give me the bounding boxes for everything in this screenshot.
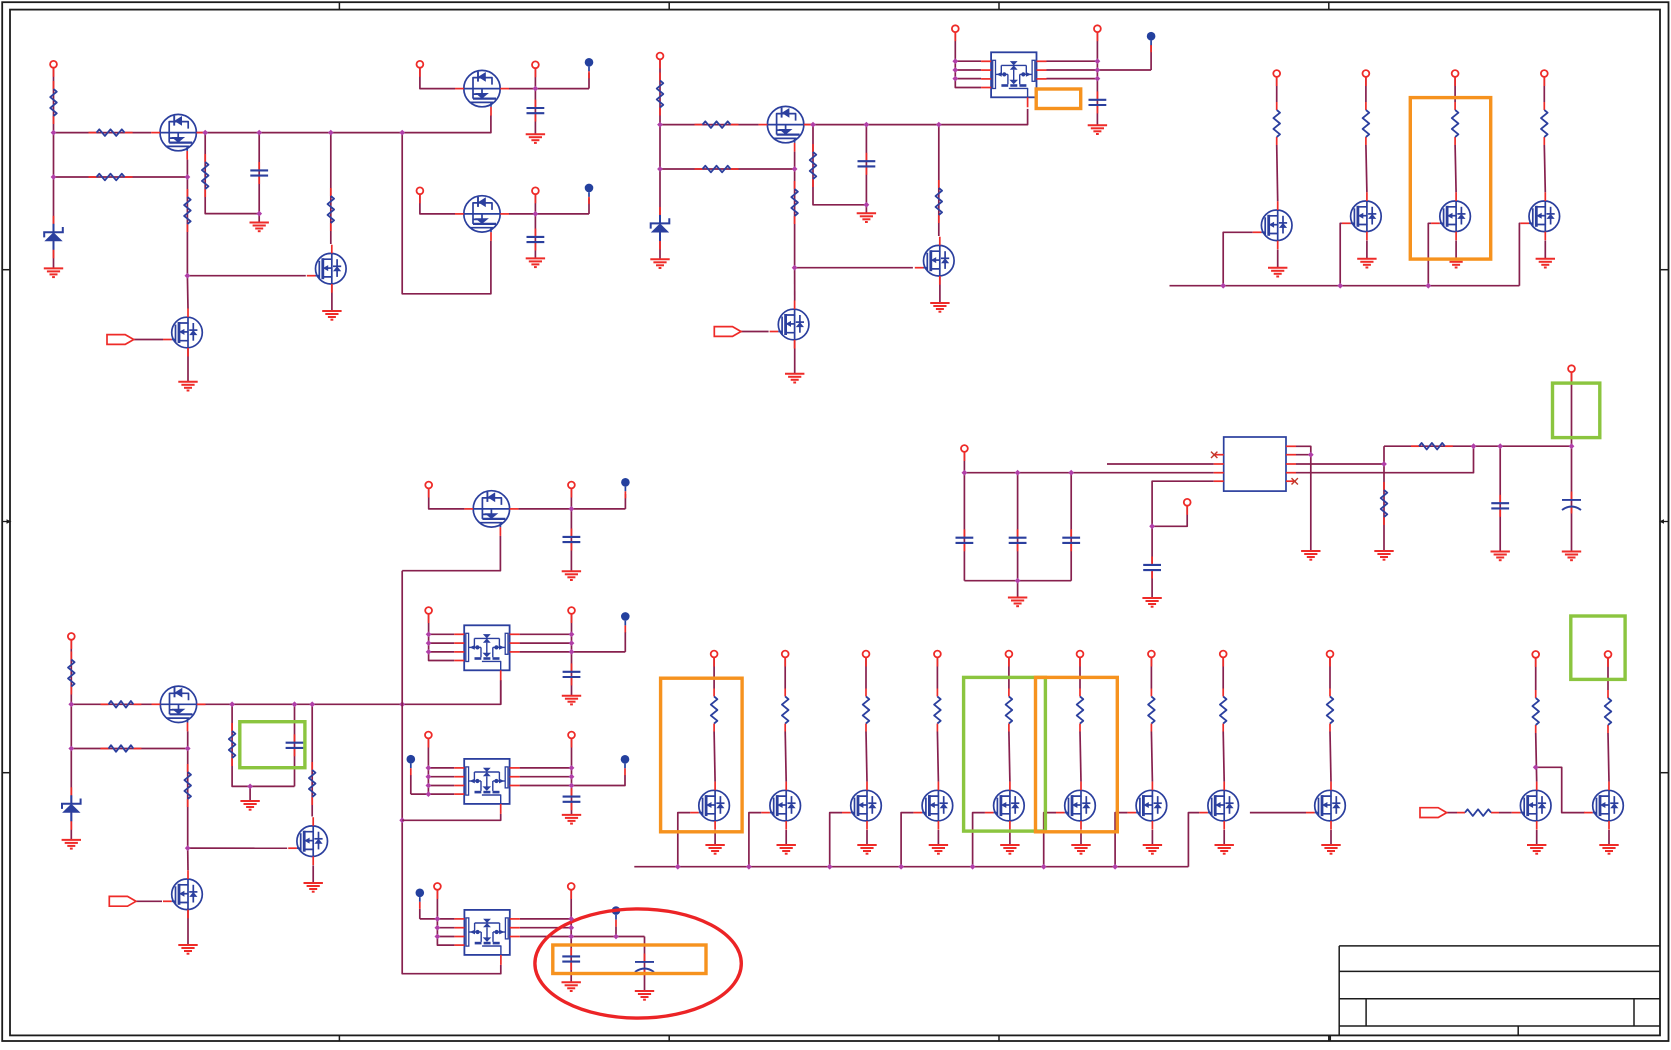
wire BR col7 R to Q — [1151, 732, 1152, 782]
wire tag3 to Q16 gate — [136, 900, 162, 902]
junction J — [399, 701, 405, 707]
ground G16 — [62, 840, 81, 849]
wire BR col5 gate — [973, 813, 985, 867]
wire U3 L3 — [428, 785, 454, 787]
junction J — [864, 122, 870, 128]
transistor Q2 — [455, 70, 509, 115]
resistor R8 — [810, 144, 817, 187]
wire gnd stub B3 — [249, 786, 251, 801]
wire Q9 source to gnd — [794, 340, 796, 374]
junction J — [569, 640, 575, 646]
wire node A2 row to Q6 gate — [660, 124, 759, 126]
ground GD2 — [635, 991, 654, 1000]
resistor R32 — [1457, 809, 1499, 816]
ground G17 — [240, 801, 259, 810]
wire BR col2 pin to R — [784, 658, 786, 689]
junction J — [569, 506, 575, 512]
pin PB5 — [1006, 651, 1013, 667]
wire CD2 column — [644, 937, 646, 992]
wire BR col8 R to Q — [1223, 732, 1224, 782]
wire BR col6 src gnd — [1080, 830, 1082, 845]
transistor QB6 — [1056, 782, 1095, 830]
resistor R34 — [1605, 690, 1612, 733]
junction J — [810, 122, 816, 128]
resistor R13 — [1452, 102, 1459, 145]
wire node A1 to zener K — [53, 133, 55, 269]
port connector T2 — [714, 327, 741, 337]
junction J — [1471, 443, 1477, 449]
resistor R15b — [101, 701, 142, 708]
wire QY src gnd — [1608, 830, 1610, 845]
wire out row main — [1384, 445, 1572, 447]
junction J — [657, 166, 663, 172]
wire R3 branch down — [205, 133, 259, 214]
junction J — [426, 783, 432, 789]
ground G4 — [178, 382, 197, 391]
node NB — [621, 612, 630, 632]
wire BR col3 src gnd — [866, 830, 868, 845]
port connector T1 — [107, 335, 134, 345]
junction J — [435, 916, 441, 922]
junction J — [185, 845, 191, 851]
wire U4 L3 — [437, 936, 454, 938]
transistor QA — [464, 491, 518, 536]
wire U1 R1 — [1047, 60, 1098, 62]
transistor Q4 — [455, 196, 509, 241]
transistor Q12 — [1431, 192, 1470, 240]
wire TR col3 src gnd — [1455, 241, 1457, 259]
wire U3 R3 — [520, 775, 625, 786]
ground G30 — [1008, 598, 1027, 607]
pin P5 — [532, 187, 539, 203]
junction J — [309, 701, 315, 707]
ground G2 — [250, 223, 269, 232]
transistor Q11 — [1342, 192, 1381, 240]
capacitor C5 — [1089, 91, 1107, 113]
resistor R15 — [68, 652, 75, 695]
resistor R11 — [1273, 102, 1280, 145]
wire row2 to Q1 source column — [54, 176, 188, 178]
wire TR col3 gate — [1428, 223, 1431, 285]
wire TR col3 R to Q — [1455, 145, 1456, 192]
wire Q15 drain column — [311, 704, 313, 816]
wire U1 L1 — [955, 60, 981, 62]
transistor Q15 — [288, 817, 327, 865]
wire BR col4 src gnd — [937, 830, 939, 845]
highlight box F1 — [1036, 89, 1081, 109]
capacitor C2 — [527, 100, 545, 122]
pin P8 — [1094, 25, 1101, 41]
highlight box F6 — [964, 677, 1046, 831]
junction J — [970, 864, 976, 870]
junction J — [435, 925, 441, 931]
wire BR col9 gate stub — [1250, 812, 1306, 814]
ground GC — [562, 815, 581, 824]
highlight box F9 — [1571, 616, 1625, 679]
wire BR col4 pin to R — [936, 658, 938, 689]
junction J — [1112, 864, 1118, 870]
junction J — [68, 746, 74, 752]
ground GB2 — [777, 845, 796, 854]
transistor QB4 — [913, 782, 952, 830]
wire U1 L3 — [955, 78, 981, 80]
wire TR col2 gate — [1340, 223, 1342, 285]
pin PC2 — [568, 732, 575, 748]
wire node A2 to zener — [659, 125, 661, 260]
junction J — [185, 273, 191, 279]
wire BR col8 pin to R — [1222, 658, 1224, 689]
capacitor CC — [563, 788, 581, 810]
wire Q14 source down — [187, 731, 189, 848]
wire rail drop to Q4 source — [402, 133, 491, 294]
ground GB9 — [1321, 845, 1340, 854]
capacitor C6 — [286, 734, 304, 756]
wire BR col4 R to Q — [937, 732, 938, 782]
wire Q1 source column to Q5 drain — [186, 276, 189, 309]
transistor Q10 — [1253, 201, 1292, 249]
ground G3 — [322, 311, 341, 320]
resistor R17 — [184, 764, 191, 807]
resistor R33 — [1532, 690, 1539, 733]
wire VR cap bottom rail — [964, 580, 1071, 582]
wire BR gate rail — [634, 866, 1188, 868]
node N2 — [585, 184, 594, 204]
ground G18 — [304, 883, 323, 892]
wire BR col2 gate — [749, 813, 761, 867]
junction J — [185, 174, 191, 180]
ground GD1 — [562, 982, 581, 991]
capacitor C11 — [1009, 529, 1027, 551]
ground G11 — [1088, 125, 1107, 134]
transistor Q14 — [152, 686, 206, 731]
wire U1 R2 — [1047, 69, 1152, 71]
wire U4 L1 — [420, 918, 455, 920]
mosfet array U1 — [981, 52, 1046, 107]
wire C6 branch — [294, 704, 296, 786]
transistor QB2 — [761, 782, 800, 830]
wire VIN2-pin to node A2 — [659, 60, 661, 125]
capacitor C1 — [250, 162, 268, 184]
pin P34 — [1605, 651, 1612, 667]
junction J — [256, 211, 262, 217]
ground GB7 — [1143, 845, 1162, 854]
wire dot stub Q4 — [588, 198, 590, 214]
junction J — [1569, 443, 1575, 449]
wire Cout col — [1499, 446, 1501, 551]
wire U2 R2 — [520, 642, 572, 644]
ground GB8 — [1215, 845, 1234, 854]
mosfet array U2 — [454, 625, 519, 680]
junction J — [569, 631, 575, 637]
wire C4 branch — [865, 125, 867, 205]
wire U2 L3 — [429, 651, 455, 653]
resistor RB7 — [1148, 689, 1155, 732]
wire U5 R2 gnd — [1296, 455, 1311, 551]
capacitor CA — [563, 529, 581, 551]
resistor R5 — [328, 188, 335, 231]
wire BR col8 src gnd — [1223, 830, 1225, 845]
wire BR col9 R to Q — [1330, 732, 1331, 782]
wire QY pin col — [1607, 658, 1609, 690]
pin PA2 — [568, 482, 575, 498]
junction J — [864, 202, 870, 208]
wire TR col1 gate — [1223, 232, 1253, 285]
junction J — [399, 817, 405, 823]
ground G19 — [178, 945, 197, 954]
resistor R2 — [89, 129, 133, 136]
ground G35 — [1562, 552, 1581, 561]
pin P33 — [1532, 651, 1539, 667]
ground GB — [562, 696, 581, 705]
wire dot stub U1 — [1150, 45, 1152, 70]
junction J — [1015, 578, 1021, 584]
junction J — [1220, 283, 1226, 289]
wire BR col3 gate — [830, 813, 842, 867]
pin P7 — [952, 25, 959, 41]
wire TR col4 pin to R — [1543, 77, 1545, 102]
wire PD1 bus — [437, 890, 454, 945]
wire gnd stub B2 — [865, 205, 867, 214]
resistor R6 — [657, 73, 664, 116]
wire BR col7 gate — [1115, 813, 1127, 867]
wire Q8 drain column — [938, 125, 940, 236]
wire U2 source to rail — [500, 680, 502, 704]
capacitor C4 — [858, 153, 876, 175]
resistor R30 — [1381, 482, 1388, 525]
wire node A3 row to Q14 gate — [71, 703, 151, 705]
pin PB1 — [711, 651, 718, 667]
junction J — [533, 211, 539, 217]
pin PB9 — [1327, 651, 1334, 667]
wire PA1 to QA gate — [429, 489, 465, 509]
junction J — [952, 58, 958, 64]
wire BR col5 R to Q — [1009, 732, 1010, 782]
capacitor CD2 (polarized) — [635, 954, 654, 976]
resistor R9 — [791, 181, 798, 224]
junction J — [675, 864, 681, 870]
wire VR cap3 col — [1070, 473, 1072, 581]
zener diode D1 — [44, 216, 63, 258]
pin P9 — [1273, 70, 1280, 86]
pin P3 — [532, 61, 539, 77]
junction J — [229, 701, 235, 707]
ground G13 — [1357, 259, 1376, 268]
wire Q16 source gnd — [187, 908, 189, 945]
wire U5 adj pin — [1152, 481, 1214, 563]
capacitor C3 — [527, 229, 545, 251]
junction J — [1015, 470, 1021, 476]
wire PIN5 column w/ cap — [534, 194, 536, 258]
ground GB3 — [857, 845, 876, 854]
node N1 — [585, 58, 594, 78]
pin PB6 — [1077, 651, 1084, 667]
pin P11 — [1452, 70, 1459, 86]
junction J — [426, 765, 432, 771]
wire BR col7 src gnd — [1151, 830, 1153, 845]
transistor Q16 — [163, 870, 202, 918]
ground G32 — [1301, 551, 1320, 560]
pin PB3 — [863, 651, 870, 667]
ground GB4 — [929, 845, 948, 854]
ground G37 — [1599, 845, 1618, 854]
junction J — [435, 916, 441, 922]
wire QA drain out — [518, 508, 625, 510]
resistor R7 — [695, 121, 739, 128]
pin P30 — [961, 445, 968, 461]
capacitor CD1 — [562, 948, 580, 970]
wire dot stub U4L — [419, 909, 421, 919]
resistor RB2 — [782, 689, 789, 732]
ground G12 — [1268, 268, 1287, 277]
capacitor C10 — [956, 529, 974, 551]
node ND1 — [416, 889, 425, 909]
junction J — [792, 265, 798, 271]
resistor R10 — [936, 180, 943, 223]
wire tag1 to Q5 gate — [133, 339, 163, 341]
wire drain rail B1 — [196, 116, 491, 133]
resistor R2b — [89, 174, 133, 181]
wire Q6 source down — [794, 152, 796, 268]
wire U1 L2 — [955, 69, 981, 71]
transistor QB8 — [1199, 782, 1238, 830]
junction J — [569, 774, 575, 780]
node NC1 — [407, 755, 416, 775]
wire U1 R3 — [1047, 78, 1098, 80]
wire source column to Q9 drain — [794, 268, 796, 301]
ground G33 — [1374, 551, 1393, 560]
wire U2 R3 — [520, 651, 626, 653]
wire VR gnd stub — [1017, 581, 1019, 598]
resistor RB8 — [1220, 689, 1227, 732]
border center arrow right — [1659, 519, 1668, 523]
ground G7 — [650, 259, 669, 268]
junction J — [185, 746, 191, 752]
junction J — [898, 864, 904, 870]
resistor R16 — [229, 723, 236, 766]
transistor QB1 — [690, 782, 729, 830]
wire Q4 drain out — [509, 213, 589, 215]
wire Q15 source gnd — [312, 866, 314, 884]
mosfet array U3 — [454, 759, 519, 814]
wire node A3 to zener — [70, 704, 72, 840]
wire U3 L4 — [411, 793, 454, 795]
node NC2 — [621, 755, 630, 775]
junction J — [426, 791, 432, 797]
wire TR col2 pin to R — [1365, 77, 1367, 102]
junction J — [952, 76, 958, 82]
ground G14 — [1446, 259, 1465, 268]
junction J — [328, 130, 334, 136]
pin PC1 — [425, 732, 432, 748]
node NA — [621, 478, 630, 498]
ground GB5 — [1000, 845, 1019, 854]
wire tag2 to Q9 gate — [741, 331, 769, 333]
wire tag4 to RH — [1447, 812, 1457, 814]
junction J — [827, 864, 833, 870]
wire VIN3-pin to node A3 — [70, 640, 72, 704]
wire dot stub QA — [624, 494, 626, 509]
wire TR col4 R to Q — [1544, 145, 1545, 192]
resistor RB3 — [863, 689, 870, 732]
resistor R4 — [184, 189, 191, 232]
pin PA1 — [425, 482, 432, 498]
wire BR col7 pin to R — [1150, 658, 1152, 689]
transistor QY — [1584, 782, 1623, 830]
wire BR col1 pin to R — [713, 658, 715, 689]
wire TR col2 src gnd — [1366, 241, 1368, 259]
pin PD2 — [568, 883, 575, 899]
wire gate row to Q15 — [188, 847, 288, 849]
resistor RB1 — [711, 689, 718, 732]
junction J — [399, 130, 405, 136]
junction J — [247, 784, 253, 790]
wire U4 R3 — [520, 936, 645, 938]
highlight box F4 — [553, 945, 706, 974]
zener diode D3 — [62, 787, 81, 830]
transistor Q6 — [759, 106, 813, 151]
junction J — [569, 649, 575, 655]
wire U3 source to bus — [402, 814, 501, 820]
junction J — [792, 166, 798, 172]
junction J — [569, 765, 575, 771]
transistor QX — [1512, 782, 1551, 830]
annotation ellipse — [535, 909, 741, 1018]
wire R16 branch down — [232, 704, 294, 786]
wire RH to QX gate — [1499, 812, 1512, 814]
wire U2 L2 — [429, 642, 455, 644]
ground G1 — [44, 268, 63, 277]
port connector T4 — [1420, 808, 1447, 818]
junction J — [202, 130, 208, 136]
wire VR pin to rail — [963, 452, 965, 473]
wire BR col2 src gnd — [785, 830, 787, 845]
resistor R31 — [1411, 443, 1453, 450]
regulator U5 — [1214, 437, 1296, 491]
wire TR col1 R to Q — [1277, 145, 1278, 201]
wire BR col3 R to Q — [866, 732, 867, 782]
ground G5 — [526, 134, 545, 143]
pin P6 — [657, 53, 664, 69]
resistor R3 — [202, 154, 209, 197]
wire PIN4 to Q4 gate — [420, 194, 455, 214]
junction J — [952, 67, 958, 73]
pin PB1 — [425, 607, 432, 623]
wire VR rail — [964, 472, 1213, 474]
resistor R1 — [50, 81, 57, 124]
junction J — [68, 701, 74, 707]
pin P13 — [68, 633, 75, 649]
wire dot stub U2 — [624, 632, 626, 652]
junction J — [1068, 470, 1074, 476]
highlight box F2 — [1410, 98, 1490, 260]
wire U4 R2 — [520, 927, 571, 929]
junction J — [569, 783, 575, 789]
junction J — [1381, 461, 1387, 467]
pin P12 — [1541, 70, 1548, 86]
wire U2 R1 — [520, 633, 572, 635]
wire source column to Q16 drain — [187, 848, 189, 870]
highlight box F8 — [1553, 383, 1600, 438]
capacitor C12 — [1062, 529, 1080, 551]
transistor QB5 — [985, 782, 1024, 830]
wire dot stub Q2 — [588, 73, 590, 89]
ground G8 — [857, 213, 876, 222]
node ND2 — [612, 906, 621, 926]
junction J — [51, 174, 57, 180]
junction J — [292, 701, 298, 707]
wire Q3 drain column — [330, 133, 332, 244]
ground G6 — [526, 258, 545, 267]
